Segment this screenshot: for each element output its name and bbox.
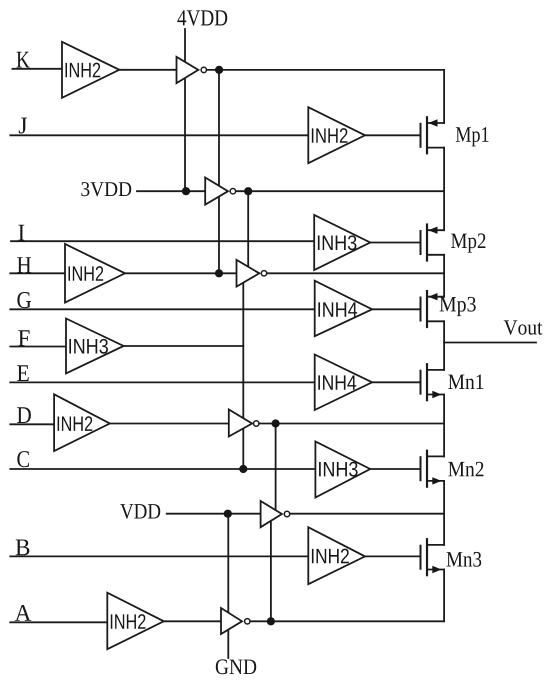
wire U1 output node down to H row xyxy=(218,70,220,273)
label Mn3 xyxy=(447,552,482,567)
wire top rail from U1 output to right rail xyxy=(207,69,444,71)
label Mp3 xyxy=(440,297,476,316)
wire U4 output node down into U5 xyxy=(275,424,277,513)
node B input wire xyxy=(10,555,308,557)
label 4VDD xyxy=(177,10,227,25)
transistor Mn1 source arrow xyxy=(432,391,441,398)
transistor Mp1 gate bar xyxy=(420,124,422,147)
node E input wire xyxy=(10,381,314,383)
inverter U3 bubble xyxy=(261,271,266,276)
node C input wire xyxy=(10,468,315,470)
label F xyxy=(18,330,29,346)
wire U5 bottom down to U6 output node xyxy=(270,514,272,621)
wire buffer A output to inverter U6 xyxy=(164,620,221,622)
wire buffer F output to vertical line xyxy=(124,345,244,347)
label INH2 in buffer K xyxy=(66,63,101,78)
transistor Mp3 gate bar xyxy=(420,298,422,321)
transistor Mn3 source lead xyxy=(427,569,444,571)
transistor Mp1 source arrow xyxy=(428,119,437,126)
label E xyxy=(17,365,29,381)
label K xyxy=(17,52,30,68)
inverter U5 bubble xyxy=(284,511,289,516)
transistor Mp3 source lead xyxy=(427,296,444,298)
transistor Mp3 source arrow xyxy=(428,293,437,300)
inverter U6 (GND) triangle xyxy=(221,608,242,634)
transistor Mn2 drain lead xyxy=(427,455,444,457)
node A input wire xyxy=(10,621,107,623)
junction dot on H row xyxy=(215,269,223,277)
node H input wire xyxy=(10,272,65,274)
node F input wire xyxy=(10,346,66,348)
label Vout xyxy=(504,320,543,334)
label G xyxy=(17,292,31,308)
label C xyxy=(17,451,29,467)
label Mp2 xyxy=(451,233,485,252)
wire buffer G output to Mp3 gate xyxy=(372,308,420,310)
wire buffer K output to inverter U1 xyxy=(119,69,176,71)
buffer INH2 (D) xyxy=(54,394,110,451)
inverter U1 (4VDD) triangle xyxy=(177,57,199,83)
transistor Mn3 channel bar xyxy=(426,539,428,575)
wire buffer J output to Mp1 gate xyxy=(365,134,421,136)
transistor Mn3 drain lead xyxy=(427,544,444,546)
buffer INH3 (F) xyxy=(66,319,124,374)
transistor Mp1 channel bar xyxy=(426,117,428,153)
transistor Mp2 drain lead xyxy=(427,254,444,256)
transistor Mn2 channel bar xyxy=(426,451,428,487)
label 3VDD xyxy=(81,182,131,196)
transistor Mp2 channel bar xyxy=(426,225,428,261)
transistor Mn2 source arrow xyxy=(432,477,441,484)
junction dot U1 output xyxy=(215,66,223,74)
wire right rail Mp3 to Mn1 xyxy=(443,321,445,370)
label J xyxy=(19,118,27,134)
label INH2 in buffer A xyxy=(111,614,146,629)
junction dot on 3VDD line xyxy=(182,187,190,195)
junction dot on C line xyxy=(239,465,247,473)
wire buffer D output to inverter U4 xyxy=(110,423,229,425)
wire inverter U2 output to right rail xyxy=(236,190,444,192)
transistor Mp2 source lead xyxy=(427,229,444,231)
wire inverter U5 output to right rail xyxy=(290,513,444,515)
buffer INH2 (H) xyxy=(65,244,125,303)
transistor Mn1 drain lead xyxy=(427,369,444,371)
inverter U1 bubble xyxy=(201,67,206,72)
wire inverter U4 output to right rail xyxy=(259,423,444,425)
transistor Mn3 source arrow xyxy=(432,566,441,573)
inverter U5 (VDD) triangle xyxy=(261,501,282,527)
label GND xyxy=(216,659,256,674)
transistor Mn1 source lead xyxy=(427,394,444,396)
label INH4 in buffer G xyxy=(318,302,357,316)
inverter U6 bubble xyxy=(245,619,250,624)
transistor Mn2 gate bar xyxy=(420,457,422,480)
wire 4VDD stem down through U1 to 3VDD line xyxy=(184,29,186,191)
buffer INH2 (J) xyxy=(308,107,365,163)
buffer INH2 (K) xyxy=(62,42,119,98)
label I xyxy=(18,225,24,241)
transistor Mp2 gate bar xyxy=(420,231,422,254)
label INH3 in buffer I xyxy=(318,235,357,250)
label A xyxy=(15,605,32,621)
node I input wire xyxy=(11,240,314,242)
wire U2 output node down into U3 xyxy=(247,191,249,278)
junction dot U6 output xyxy=(267,617,275,625)
transistor Mp3 channel bar xyxy=(426,291,428,327)
wire inverter U3 output to right rail xyxy=(267,272,444,274)
label INH2 in buffer H xyxy=(69,266,104,281)
wire right rail segment top to Mp1 xyxy=(443,70,445,123)
label Mp1 xyxy=(456,127,489,146)
label Mn2 xyxy=(448,462,483,477)
inverter U4 bubble xyxy=(254,421,259,426)
wire right rail Mn1 to Mn2 xyxy=(443,395,445,457)
inverter U4 triangle xyxy=(229,410,252,437)
label INH2 in buffer B xyxy=(312,549,349,564)
transistor Mn1 channel bar xyxy=(426,364,428,400)
junction dot U2 output xyxy=(244,187,252,195)
buffer INH2 (A) xyxy=(107,593,164,650)
wire right rail Mp2 to Mp3 xyxy=(443,255,445,297)
label D xyxy=(17,407,31,423)
node D input wire xyxy=(10,423,54,425)
transistor Mn3 gate bar xyxy=(420,546,422,569)
node VDD wire xyxy=(167,513,261,515)
wire buffer I output to Mp2 gate xyxy=(370,242,420,244)
transistor Mp1 source lead xyxy=(427,122,444,124)
wire VDD node down through U6 to GND xyxy=(227,514,229,658)
label H xyxy=(17,257,31,273)
wire right rail Mn3 to bottom corner xyxy=(443,570,445,622)
wire inverter U6 output to right rail corner xyxy=(251,620,445,622)
label Mn1 xyxy=(448,374,483,389)
node G input wire xyxy=(10,308,314,310)
junction dot U4 output xyxy=(272,419,280,427)
wire buffer E output to Mn1 gate xyxy=(372,381,420,383)
buffer INH3 (C) xyxy=(315,442,370,498)
inverter U3 triangle xyxy=(237,260,260,287)
label VDD xyxy=(120,504,160,519)
node 3VDD wire xyxy=(137,190,205,192)
wire right rail Mn2 to Mn3 xyxy=(443,481,445,545)
wire U3 bottom down through U4 to C line xyxy=(242,281,244,469)
buffer INH2 (B) xyxy=(308,527,365,584)
buffer INH4 (G) xyxy=(315,281,372,337)
node Vout wire xyxy=(444,342,536,344)
wire buffer H output to inverter U3 xyxy=(125,272,237,274)
label INH3 in buffer C xyxy=(319,462,358,477)
buffer INH4 (E) xyxy=(315,355,372,411)
node K input wire xyxy=(12,68,62,70)
label INH2 in buffer D xyxy=(58,416,93,431)
transistor Mn1 gate bar xyxy=(420,371,422,394)
transistor Mp1 drain lead xyxy=(427,147,444,149)
inverter U2 bubble xyxy=(230,189,235,194)
label INH2 in buffer J xyxy=(312,128,348,143)
node J input wire xyxy=(10,134,308,136)
junction dot on VDD line xyxy=(224,510,232,518)
wire right rail Mp1 to Mp2 xyxy=(443,148,445,231)
buffer INH3 (I) xyxy=(314,215,370,270)
label INH4 in buffer E xyxy=(318,375,356,389)
transistor Mp2 source arrow xyxy=(428,227,437,234)
label INH3 in buffer F xyxy=(69,339,108,354)
label B xyxy=(16,539,30,555)
wire buffer C output to Mn2 gate xyxy=(370,468,420,470)
transistor Mn2 source lead xyxy=(427,480,444,482)
wire buffer B output to Mn3 gate xyxy=(365,555,421,557)
transistor Mp3 drain lead xyxy=(427,320,444,322)
inverter U2 (3VDD) triangle xyxy=(205,178,228,205)
